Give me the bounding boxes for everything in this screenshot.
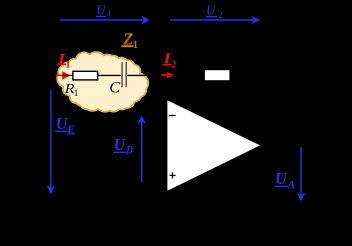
wire: resistor R1 to capacitor C (98, 74, 122, 76)
svg-text:U: U (56, 114, 68, 133)
svg-text:D: D (125, 144, 133, 157)
label R1 (64, 82, 79, 99)
label U2 (206, 2, 223, 21)
svg-text:1: 1 (133, 40, 138, 51)
capacitor C (122, 62, 126, 87)
svg-text:C: C (109, 79, 120, 97)
label I2 (162, 51, 176, 70)
svg-text:2: 2 (171, 59, 176, 70)
svg-text:1: 1 (107, 10, 112, 20)
svg-text:U: U (275, 169, 287, 188)
voltage arrow UA (297, 147, 305, 201)
svg-text:1: 1 (74, 89, 79, 99)
svg-text:U: U (114, 135, 126, 154)
label UA (275, 169, 296, 192)
wire: capacitor C to output node (127, 74, 148, 76)
voltage arrow UE (47, 90, 55, 194)
op-amp U1 body (167, 100, 260, 191)
svg-text:U: U (206, 2, 216, 17)
label UE (55, 114, 75, 136)
impedance cloud Z1 (57, 52, 148, 112)
svg-text:A: A (287, 178, 296, 192)
voltage arrow UD (138, 115, 146, 182)
voltage arrow U2 (170, 16, 260, 24)
current arrow I1 (56, 71, 70, 80)
svg-text:2: 2 (218, 11, 223, 21)
label UD (113, 135, 133, 156)
label I1 (57, 51, 71, 70)
op-amp inverting input (-) (169, 115, 176, 117)
resistor R1 (73, 71, 98, 80)
resistor Z2 (body) (205, 70, 230, 80)
label C (109, 79, 120, 97)
current arrow I2 (161, 72, 176, 79)
op-amp non-inverting input (+) (170, 172, 176, 178)
svg-text:U: U (96, 2, 106, 17)
label U1 (96, 2, 112, 19)
label Z1 (121, 29, 138, 51)
voltage arrow U1 (60, 16, 150, 25)
wire: node to resistor R1 (62, 74, 74, 76)
